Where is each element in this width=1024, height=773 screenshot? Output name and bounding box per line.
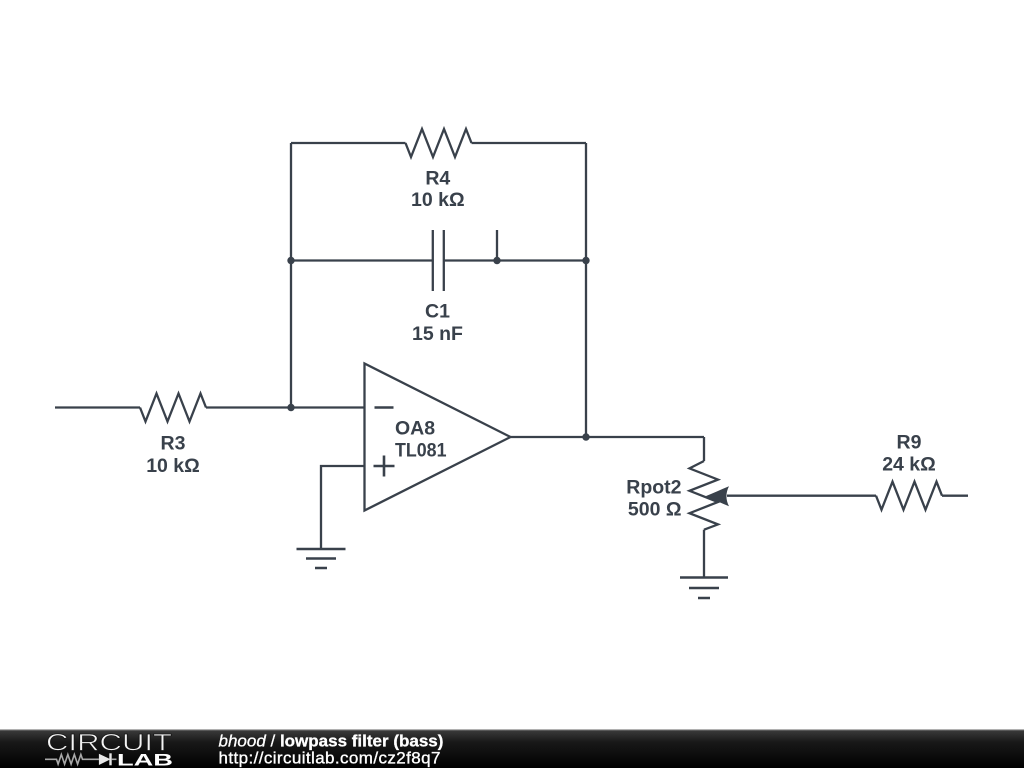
- node cap-left junction: [287, 257, 294, 264]
- wire output: [511, 436, 705, 438]
- op-amp U1 OA8 triangle: [365, 364, 511, 511]
- svg-text:C1: C1: [425, 301, 450, 323]
- ground pot: [680, 578, 728, 599]
- node at inverting input junction: [287, 404, 294, 411]
- svg-text:24 kΩ: 24 kΩ: [882, 454, 936, 476]
- potentiometer wiper arrow: [706, 486, 730, 506]
- svg-text:LAB: LAB: [117, 751, 173, 768]
- resistor R3: [140, 394, 206, 422]
- wire cap right: [444, 259, 586, 261]
- svg-text:R9: R9: [897, 432, 922, 454]
- logo squiggle wire: [45, 755, 99, 765]
- wire right riser: [585, 143, 587, 437]
- wire stub above cap net: [496, 230, 498, 261]
- node output junction: [582, 433, 589, 440]
- capacitor C1 plate right: [443, 230, 445, 291]
- ground op-amp: [297, 549, 346, 568]
- wire pot bottom lead: [703, 530, 705, 578]
- wire input left: [55, 406, 140, 408]
- wire top left: [291, 142, 406, 144]
- resistor R4: [406, 129, 472, 157]
- op-amp plus symbol: [374, 456, 395, 477]
- potentiometer Rpot2 body: [690, 461, 719, 530]
- node cap-right junction: [582, 257, 589, 264]
- svg-text:Rpot2: Rpot2: [626, 477, 681, 499]
- svg-text:10 kΩ: 10 kΩ: [146, 455, 200, 477]
- resistor R9: [876, 482, 942, 510]
- node stub junction: [493, 257, 500, 264]
- wire left riser: [290, 143, 292, 408]
- wire cap left: [291, 259, 433, 261]
- wire top right: [472, 142, 587, 144]
- wire wiper to R9: [727, 495, 876, 497]
- svg-text:bhood / lowpass filter (bass): bhood / lowpass filter (bass): [219, 731, 444, 750]
- svg-text:10 kΩ: 10 kΩ: [411, 189, 465, 211]
- svg-text:R3: R3: [161, 433, 186, 455]
- svg-text:http://circuitlab.com/cz2f8q7: http://circuitlab.com/cz2f8q7: [219, 749, 441, 768]
- op-amp minus symbol: [375, 406, 394, 409]
- wire R9 right: [942, 495, 968, 497]
- wire R3 to op-amp minus input: [206, 406, 365, 408]
- svg-text:R4: R4: [425, 168, 450, 190]
- svg-text:OA8: OA8: [395, 417, 435, 439]
- footer bar: [0, 730, 1024, 769]
- logo diode symbol: [99, 754, 111, 765]
- svg-text:500 Ω: 500 Ω: [628, 498, 682, 520]
- wire pot top lead: [703, 437, 705, 461]
- wire plus input to ground: [321, 466, 365, 549]
- capacitor C1 plate left: [432, 230, 434, 291]
- svg-text:TL081: TL081: [395, 440, 447, 462]
- svg-text:15 nF: 15 nF: [412, 323, 463, 345]
